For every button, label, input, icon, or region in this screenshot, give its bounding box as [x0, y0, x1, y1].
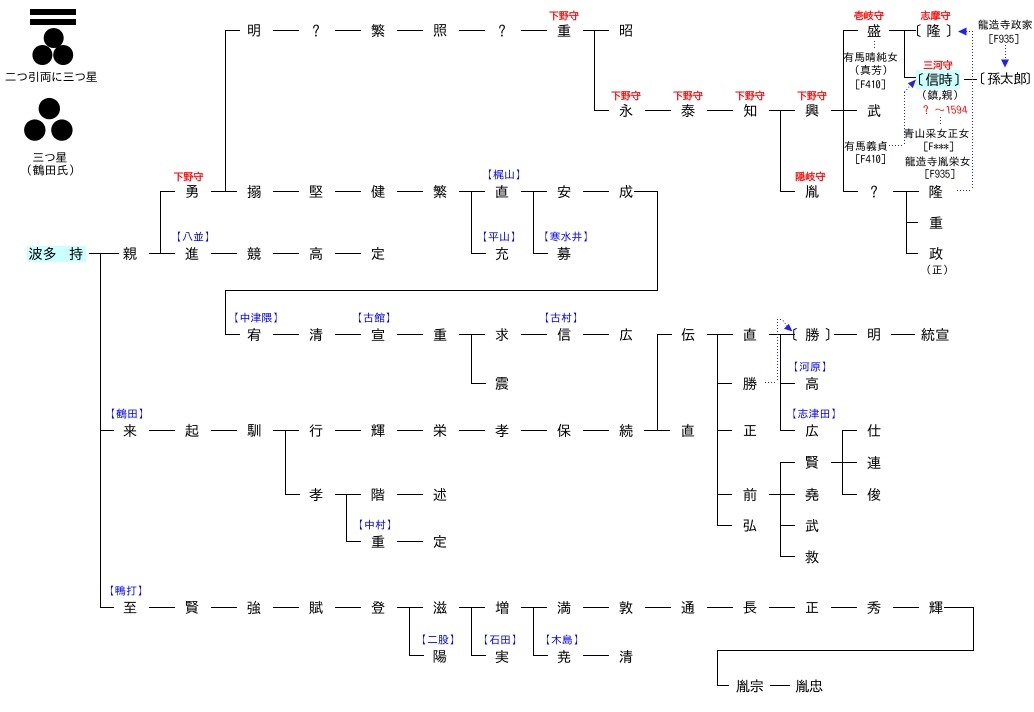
branch 前→children — [780, 462, 781, 557]
stub to 宥 — [225, 334, 240, 335]
family label 【梶山】 — [489, 169, 519, 179]
caption （鶴田氏） — [28, 164, 73, 175]
wire 信-広 — [583, 334, 609, 335]
wire 宣-重 — [397, 334, 423, 335]
person 伝 (col 9 row G) — [682, 328, 695, 341]
person 宣 (col 4 row G) — [372, 328, 385, 341]
wire 搦-堅 — [273, 191, 299, 192]
person 求 (col 6 row G) — [496, 328, 509, 341]
note 青山采女正女 — [904, 128, 969, 138]
note ? ～1594 (red) — [923, 105, 967, 114]
branch 増→尭 — [533, 607, 534, 656]
branch 滋→実 — [471, 607, 472, 656]
wire 秀-輝 — [893, 607, 919, 608]
branch 直→〔勝〕/高/広 — [780, 334, 781, 431]
person 行 (col 3 row I) — [310, 424, 323, 437]
highlight box 〔信時〕 — [916, 70, 960, 89]
wire 滋-増 (junction x471) — [459, 607, 485, 608]
person 勇 (col 1 row D) — [186, 185, 198, 198]
wire 胤宗-胤忠 — [770, 685, 790, 686]
person 起 (col 1 row I) — [185, 424, 198, 437]
person 述 (col 5 row K) — [433, 488, 446, 501]
wire 階-述 — [397, 494, 423, 495]
person 敦 (col 8 row M) — [619, 601, 632, 614]
family label 【八並】 — [178, 232, 208, 242]
person 〔信時〕 (highlighted) — [919, 73, 958, 86]
wire 泰-知 — [707, 110, 733, 111]
adoption link 勝→〔勝〕 part2 — [777, 319, 779, 382]
person 高 (col 3 row F) — [310, 247, 322, 260]
person 〔勝〕 — [793, 328, 829, 341]
title 三河守 — [924, 60, 953, 69]
arrowhead into 〔孫太郎〕 — [1001, 60, 1009, 68]
wire 成→wrap corner — [634, 191, 658, 192]
wire 健-繁 — [397, 191, 423, 192]
person 安 (col 7 row D) — [558, 185, 571, 198]
person 定 (col 5 row L) — [434, 535, 447, 548]
wire ?-隆 (junction x906) — [893, 191, 919, 192]
stub to 陽 — [409, 655, 424, 656]
person 輝 (col 13 row M) — [929, 601, 942, 614]
adoption link 勝→〔勝〕 diagonal — [783, 321, 788, 328]
stub to 伝 — [657, 334, 672, 335]
title 隠岐守 — [796, 172, 825, 182]
person 広 (col 11 row I) — [806, 424, 818, 437]
person 馴 (col 2 row I) — [248, 424, 261, 437]
wire 重-昭 (junction x595) — [583, 30, 609, 31]
wire 起-馴 — [211, 430, 237, 431]
person 長 (col 10 row M) — [744, 601, 757, 613]
person 政 (col 13 row F) — [929, 247, 942, 260]
person 統宣 — [921, 328, 948, 341]
branch 重→震 — [471, 334, 472, 384]
person 〔隆〕 (adopted, Shimanokami) — [917, 24, 950, 37]
adoption link 有馬義貞→〔信時〕 part2 — [904, 92, 906, 145]
branch 繁→充 — [471, 191, 472, 254]
stub to 孝 — [285, 494, 300, 495]
person 成 (col 8 row D) — [619, 185, 632, 198]
title 志摩守 — [921, 11, 950, 21]
person 直 (col 10 row G) — [744, 328, 756, 341]
person 満 (col 7 row M) — [558, 601, 571, 614]
note 龍造寺政家 — [978, 20, 1032, 30]
person ? (col 3 row A) — [313, 25, 319, 37]
stub to 重 — [906, 222, 918, 223]
wire 前-堯 (junction x781) — [769, 494, 795, 495]
wire 勇-搦 (junction x225) — [211, 191, 237, 192]
adoption link 隆→〔隆〕 part3 — [966, 31, 972, 33]
family label 【志津田】 — [793, 409, 834, 419]
person 定 (col 4 row F) — [372, 247, 385, 260]
person 震 (col 6 row H) — [496, 377, 509, 390]
wire ?-繁 — [335, 30, 361, 31]
person 信 (col 7 row G) — [558, 328, 571, 341]
wire 輝→wrap corner — [944, 607, 974, 608]
wrap down from 輝 — [973, 607, 974, 651]
person 高 (col 11 row H) — [806, 377, 818, 390]
stub to 尭 — [533, 655, 548, 656]
person ? (col 12 row D) — [871, 186, 877, 198]
person 健 (col 4 row D) — [371, 185, 384, 198]
person 保 (col 7 row I) — [557, 424, 570, 437]
person 至 (col 0 row M) — [124, 602, 137, 613]
wire 繁-直 (junction x471) — [459, 191, 485, 192]
person 盛 (col 12 row A) — [868, 24, 881, 37]
person 通 (col 9 row M) — [681, 601, 694, 613]
person 募 (col 7 row F) — [557, 247, 570, 260]
stub to 弘 — [717, 525, 732, 526]
person 堅 (col 3 row D) — [310, 186, 323, 198]
caption 二つ引両に三つ星 — [6, 72, 97, 82]
stub to 胤宗 — [717, 685, 729, 686]
branch 盛→〔信時〕 — [904, 30, 905, 78]
note 有馬晴純女 — [844, 52, 898, 62]
branch 直(row I)→伝 (up) — [657, 334, 658, 431]
stub to 広 — [780, 430, 795, 431]
wrap down to 胤宗 — [717, 650, 718, 686]
person 増 (col 6 row M) — [496, 601, 509, 614]
family label 【中津隈】 — [235, 313, 276, 323]
stub to 正 — [717, 430, 732, 431]
family label 【中村】 — [360, 520, 390, 530]
person 宥 (col 2 row G) — [248, 328, 261, 341]
wire 明-統宣 — [891, 334, 915, 335]
person 連 (col 12 row J) — [867, 456, 880, 469]
stub to 胤 — [780, 191, 795, 192]
wire 正-秀 — [831, 607, 857, 608]
person 尭 (col 7 row N) — [558, 650, 570, 663]
person 滋 (col 5 row M) — [433, 601, 446, 614]
stub to 至 — [100, 607, 114, 608]
person 栄 (col 5 row I) — [434, 424, 447, 437]
wire 賦-登 — [335, 607, 361, 608]
stub to 盛 — [843, 30, 858, 31]
person 賢 (col 1 row M) — [186, 601, 199, 614]
person 波多 持 (highlighted) — [29, 247, 42, 260]
wrap down from 成 — [657, 191, 658, 291]
family label 【石田】 — [485, 635, 515, 645]
stub to 重 — [346, 541, 361, 542]
family label 【木島】 — [547, 635, 577, 645]
note 龍造寺胤栄女 — [905, 156, 970, 166]
person 仕 (col 12 row I) — [867, 424, 880, 437]
stub to 実 — [471, 655, 486, 656]
wire 堅-健 — [335, 191, 361, 192]
wire 明-? — [273, 30, 299, 31]
wire 重-求 (junction x471) — [459, 334, 485, 335]
person 孝 (col 6 row I) — [495, 424, 508, 437]
family label 【古村】 — [546, 313, 576, 323]
person 泰 (col 9 row C) — [681, 104, 694, 117]
branch 勇→明 (up) — [225, 30, 226, 192]
title 下野守 — [612, 91, 641, 100]
branch 興→盛/武/? — [843, 30, 844, 192]
family label 【古館】 — [359, 313, 389, 323]
arrowhead into 〔隆〕 — [958, 28, 967, 36]
person 前 (col 10 row K) — [744, 488, 757, 501]
branch 孝→重 — [346, 494, 347, 542]
arrowhead into 〔信時〕 — [908, 80, 916, 89]
person 興 (col 11 row C) — [806, 104, 819, 117]
note （真芳） — [856, 65, 886, 75]
family label 【二股】 — [423, 634, 453, 644]
stub to 募 — [533, 253, 548, 254]
branch 賢→仕/連/俊 — [842, 430, 843, 495]
branch 馴→孝 — [285, 430, 286, 495]
wire 長-正 — [769, 607, 795, 608]
family label 【平山】 — [484, 232, 514, 242]
person 繁 (col 4 row A) — [371, 24, 384, 37]
person 重 (col 5 row G) — [434, 328, 447, 340]
wire 来-起 — [149, 430, 175, 431]
branch 隆→重/政 — [906, 191, 907, 254]
stub to 政 — [906, 253, 918, 254]
stub to 〔信時〕 — [904, 77, 916, 78]
wire 重-定 — [397, 541, 423, 542]
ref [F935] — [926, 169, 955, 179]
wire 栄-孝 — [459, 430, 485, 431]
branch 重→永 — [594, 30, 595, 111]
stub to 勇 — [160, 191, 175, 192]
wire 登-滋 (junction x409) — [397, 607, 423, 608]
adoption link 勝→〔勝〕 part3 — [777, 319, 783, 321]
wire 伝-直 (junction x719) — [707, 334, 733, 335]
person 胤 (col 11 row D) — [805, 185, 818, 198]
stub to 来 — [100, 430, 114, 431]
wire 清-宣 — [335, 334, 361, 335]
stub to 高 — [780, 383, 795, 384]
person 強 (col 2 row M) — [248, 601, 261, 614]
person 重 (col 4 row L) — [372, 535, 385, 547]
wire 行-輝 — [335, 430, 361, 431]
person 堯 (col 11 row K) — [805, 488, 818, 501]
wire 孝-階 (junction x347) — [335, 494, 361, 495]
person ? (col 6 row A) — [499, 25, 505, 37]
wire 直-安 (junction x533) — [521, 191, 547, 192]
wire 競-高 — [273, 253, 299, 254]
person 親 (col 0 row F) — [123, 247, 136, 260]
person 清 (col 3 row G) — [310, 328, 323, 341]
person 直 (col 9 row I) — [682, 424, 694, 437]
person 正 (col 11 row M) — [806, 602, 818, 613]
wire ?-重 — [521, 30, 547, 31]
person 重 (col 7 row A) — [558, 24, 571, 36]
person 胤宗 — [736, 679, 763, 692]
wire 尭-清 — [583, 655, 609, 656]
wire 賢-強 — [211, 607, 237, 608]
link 龍造寺政家→〔孫太郎〕 — [1005, 45, 1007, 59]
person 賢 (col 11 row J) — [806, 456, 819, 469]
person 登 (col 4 row M) — [371, 601, 384, 613]
note （正） — [928, 265, 947, 275]
person 救 (col 11 row M2) — [805, 550, 818, 563]
stub to 震 — [471, 383, 486, 384]
person 充 (col 6 row F) — [496, 247, 508, 260]
person 競 (col 2 row F) — [247, 247, 260, 260]
adoption link 有馬義貞→〔信時〕 part1 — [889, 145, 904, 147]
wire 永-泰 — [645, 110, 671, 111]
title 下野守 — [550, 11, 579, 20]
wire 照-? — [459, 30, 485, 31]
branch 親→勇 — [160, 191, 161, 254]
stub to 救 — [780, 556, 795, 557]
wire 親-進 (junction x161) — [149, 253, 175, 254]
wire 至-賢 — [149, 607, 175, 608]
person 永 (col 8 row C) — [619, 104, 632, 117]
arrowhead into 〔勝〕 — [784, 324, 793, 332]
caption 三つ星 — [33, 152, 66, 162]
wire 通-長 — [707, 607, 733, 608]
wire 〔勝〕-明 — [834, 334, 857, 335]
branch 知→胤 — [780, 110, 781, 192]
wire 高-定 — [335, 253, 361, 254]
crest three stars (upper) — [44, 28, 64, 48]
trunk from 波多持 down — [100, 253, 101, 608]
person 搦 (col 2 row D) — [247, 185, 260, 198]
wire 直-〔勝〕 (junction x781) — [769, 334, 795, 335]
stub to 前 — [717, 494, 732, 495]
wire 求-信 — [521, 334, 547, 335]
person 重 (col 13 row E) — [930, 216, 943, 228]
title 下野守 — [174, 172, 203, 181]
branch 直→募 — [533, 191, 534, 254]
wire 増-満 (junction x533) — [521, 607, 547, 608]
person 勝 (col 10 row H) — [743, 377, 757, 390]
adoption link 隆→〔隆〕 part2 — [972, 31, 974, 190]
title 下野守 — [674, 91, 703, 100]
person 秀 (col 12 row M) — [867, 601, 880, 614]
person 明 (col 2 row A) — [248, 24, 260, 36]
title 壱岐守 — [854, 11, 883, 21]
title 下野守 — [736, 91, 765, 100]
person 階 (col 4 row K) — [372, 488, 385, 501]
wrap horizontal — [225, 290, 658, 291]
person 弘 (col 10 row L2) — [744, 519, 757, 531]
wire 敦-通 — [645, 607, 671, 608]
person 正 (col 10 row I) — [744, 425, 756, 436]
wire 宥-清 — [273, 334, 299, 335]
adoption link 有馬義貞→〔信時〕 diagonal — [905, 87, 910, 93]
family label 【河原】 — [795, 362, 825, 372]
family label 【鴨打】 — [111, 586, 141, 596]
marriage link 信時=wives (dotted) — [940, 117, 942, 126]
family label 【寒水井】 — [545, 231, 586, 241]
wire 保-続 — [583, 430, 609, 431]
person 武 (col 11 row L2) — [806, 519, 819, 532]
person 直 (col 6 row D) — [496, 185, 508, 198]
wire 安-成 — [583, 191, 609, 192]
crest bar 1 of 二つ引両 — [30, 9, 76, 15]
person 隆 (col 13 row D) — [930, 185, 943, 198]
wrap down to 宥 — [225, 290, 226, 335]
person 広 (col 8 row G) — [620, 328, 632, 341]
wire 馴-行 (junction x285) — [273, 430, 299, 431]
wire 盛-〔隆〕 (junction x904) — [889, 30, 916, 31]
wrap horizontal to 胤宗 — [717, 650, 974, 651]
stub to ? — [843, 191, 858, 192]
wire 満-敦 — [583, 607, 609, 608]
person 〔孫太郎〕 — [981, 72, 1030, 85]
person 清 (col 8 row N) — [620, 650, 633, 663]
person 実 (col 6 row N) — [496, 650, 509, 663]
wire 賢-連 (junction x843) — [831, 462, 857, 463]
wire 知-興 (junction x781) — [769, 110, 795, 111]
wire 進-競 — [211, 253, 237, 254]
wire 孝-保 — [521, 430, 547, 431]
person 孝 (col 3 row K) — [309, 488, 322, 501]
wire 輝-栄 — [397, 430, 423, 431]
stub to 明 — [225, 30, 240, 31]
adoption link 勝→〔勝〕 part1 — [765, 382, 777, 384]
branch 伝→children — [717, 334, 718, 526]
person 明 (col 12 row G) — [868, 328, 880, 340]
wire 繁-照 — [397, 30, 423, 31]
ref [F***] — [924, 142, 953, 152]
note 有馬義貞 — [844, 141, 887, 151]
ref [F410] — [856, 154, 885, 164]
person 照 (col 5 row A) — [434, 24, 447, 37]
wire 〔信時〕-〔孫太郎〕 — [964, 79, 977, 80]
stub to 俊 — [842, 494, 857, 495]
person 知 (col 10 row C) — [744, 104, 756, 117]
ref [F935] — [990, 34, 1019, 44]
stub to 永 — [594, 110, 609, 111]
wire 興-武 (junction x843) — [831, 110, 857, 111]
stub to 仕 — [842, 430, 857, 431]
stub to 勝 — [717, 383, 732, 384]
wire 強-賦 — [273, 607, 299, 608]
crest three stars (lower, Tsuruta) — [39, 98, 60, 119]
person 続 (col 8 row I) — [619, 424, 632, 437]
person 胤忠 — [796, 679, 823, 692]
person 進 (col 1 row F) — [185, 247, 198, 260]
adoption link 隆→〔隆〕 part1 — [957, 190, 972, 192]
person 輝 (col 4 row I) — [371, 424, 384, 437]
marriage link 盛=有馬晴純女 (dotted) — [874, 41, 876, 49]
wire 波多持-親 (junction x100) — [89, 253, 119, 254]
highlight box 波多持 — [27, 246, 86, 262]
crest bar 2 of 二つ引両 — [30, 19, 76, 25]
wire 続-直 (junction x657) — [644, 430, 670, 431]
title 下野守 — [798, 91, 827, 100]
stub to 充 — [471, 253, 486, 254]
person 昭 (col 8 row A) — [620, 24, 632, 36]
stub to 武 — [780, 525, 795, 526]
ref [F410] — [856, 79, 885, 89]
person 武 (col 12 row C) — [868, 104, 881, 117]
stub to 賢 — [780, 462, 795, 463]
family label 【鶴田】 — [112, 409, 142, 419]
person 俊 (col 12 row K) — [867, 488, 880, 501]
person 来 (col 0 row I) — [124, 424, 137, 437]
person 陽 (col 5 row N) — [434, 650, 447, 663]
person 賦 (col 3 row M) — [309, 601, 322, 614]
note （鎮,親） — [923, 90, 957, 100]
person 繁 (col 5 row D) — [433, 185, 446, 198]
branch 登→陽 — [409, 607, 410, 656]
